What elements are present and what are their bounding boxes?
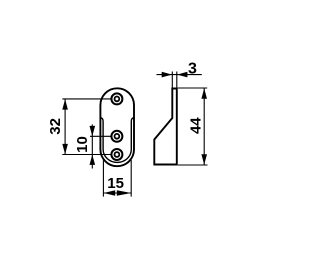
dimension text 10 xyxy=(74,136,91,153)
hole bottom xyxy=(111,149,122,160)
dimension text 44 xyxy=(188,117,205,134)
svg-text:3: 3 xyxy=(188,60,197,77)
dimension text 15 xyxy=(107,175,124,192)
front view inner recess contour xyxy=(101,118,134,163)
dimension 32 line with arrows xyxy=(62,99,68,155)
dimension 44 line with arrows xyxy=(201,88,207,165)
extension line bottom for 44 xyxy=(178,164,208,166)
svg-text:44: 44 xyxy=(188,117,205,134)
side view profile outline xyxy=(154,89,177,165)
extension lines for 3 xyxy=(172,72,177,89)
dimension text 32 xyxy=(47,118,64,135)
extension lines for 15 xyxy=(103,160,131,197)
dimension 15 line with arrows xyxy=(103,190,131,195)
svg-text:10: 10 xyxy=(74,136,91,153)
dimension text 3 xyxy=(188,60,197,77)
front view outer stadium outline xyxy=(100,88,134,166)
hole middle xyxy=(111,131,122,142)
extension line from top hole xyxy=(62,98,115,100)
extension line from bottom hole xyxy=(62,154,115,156)
svg-text:15: 15 xyxy=(107,175,124,192)
extension line top for 44 xyxy=(178,87,207,89)
hole top xyxy=(111,93,122,104)
dimension 3 line with outside arrows xyxy=(157,72,202,78)
dimension 10 line with outside arrows xyxy=(90,124,96,168)
extension line from middle hole xyxy=(90,135,115,137)
svg-text:32: 32 xyxy=(47,118,64,135)
